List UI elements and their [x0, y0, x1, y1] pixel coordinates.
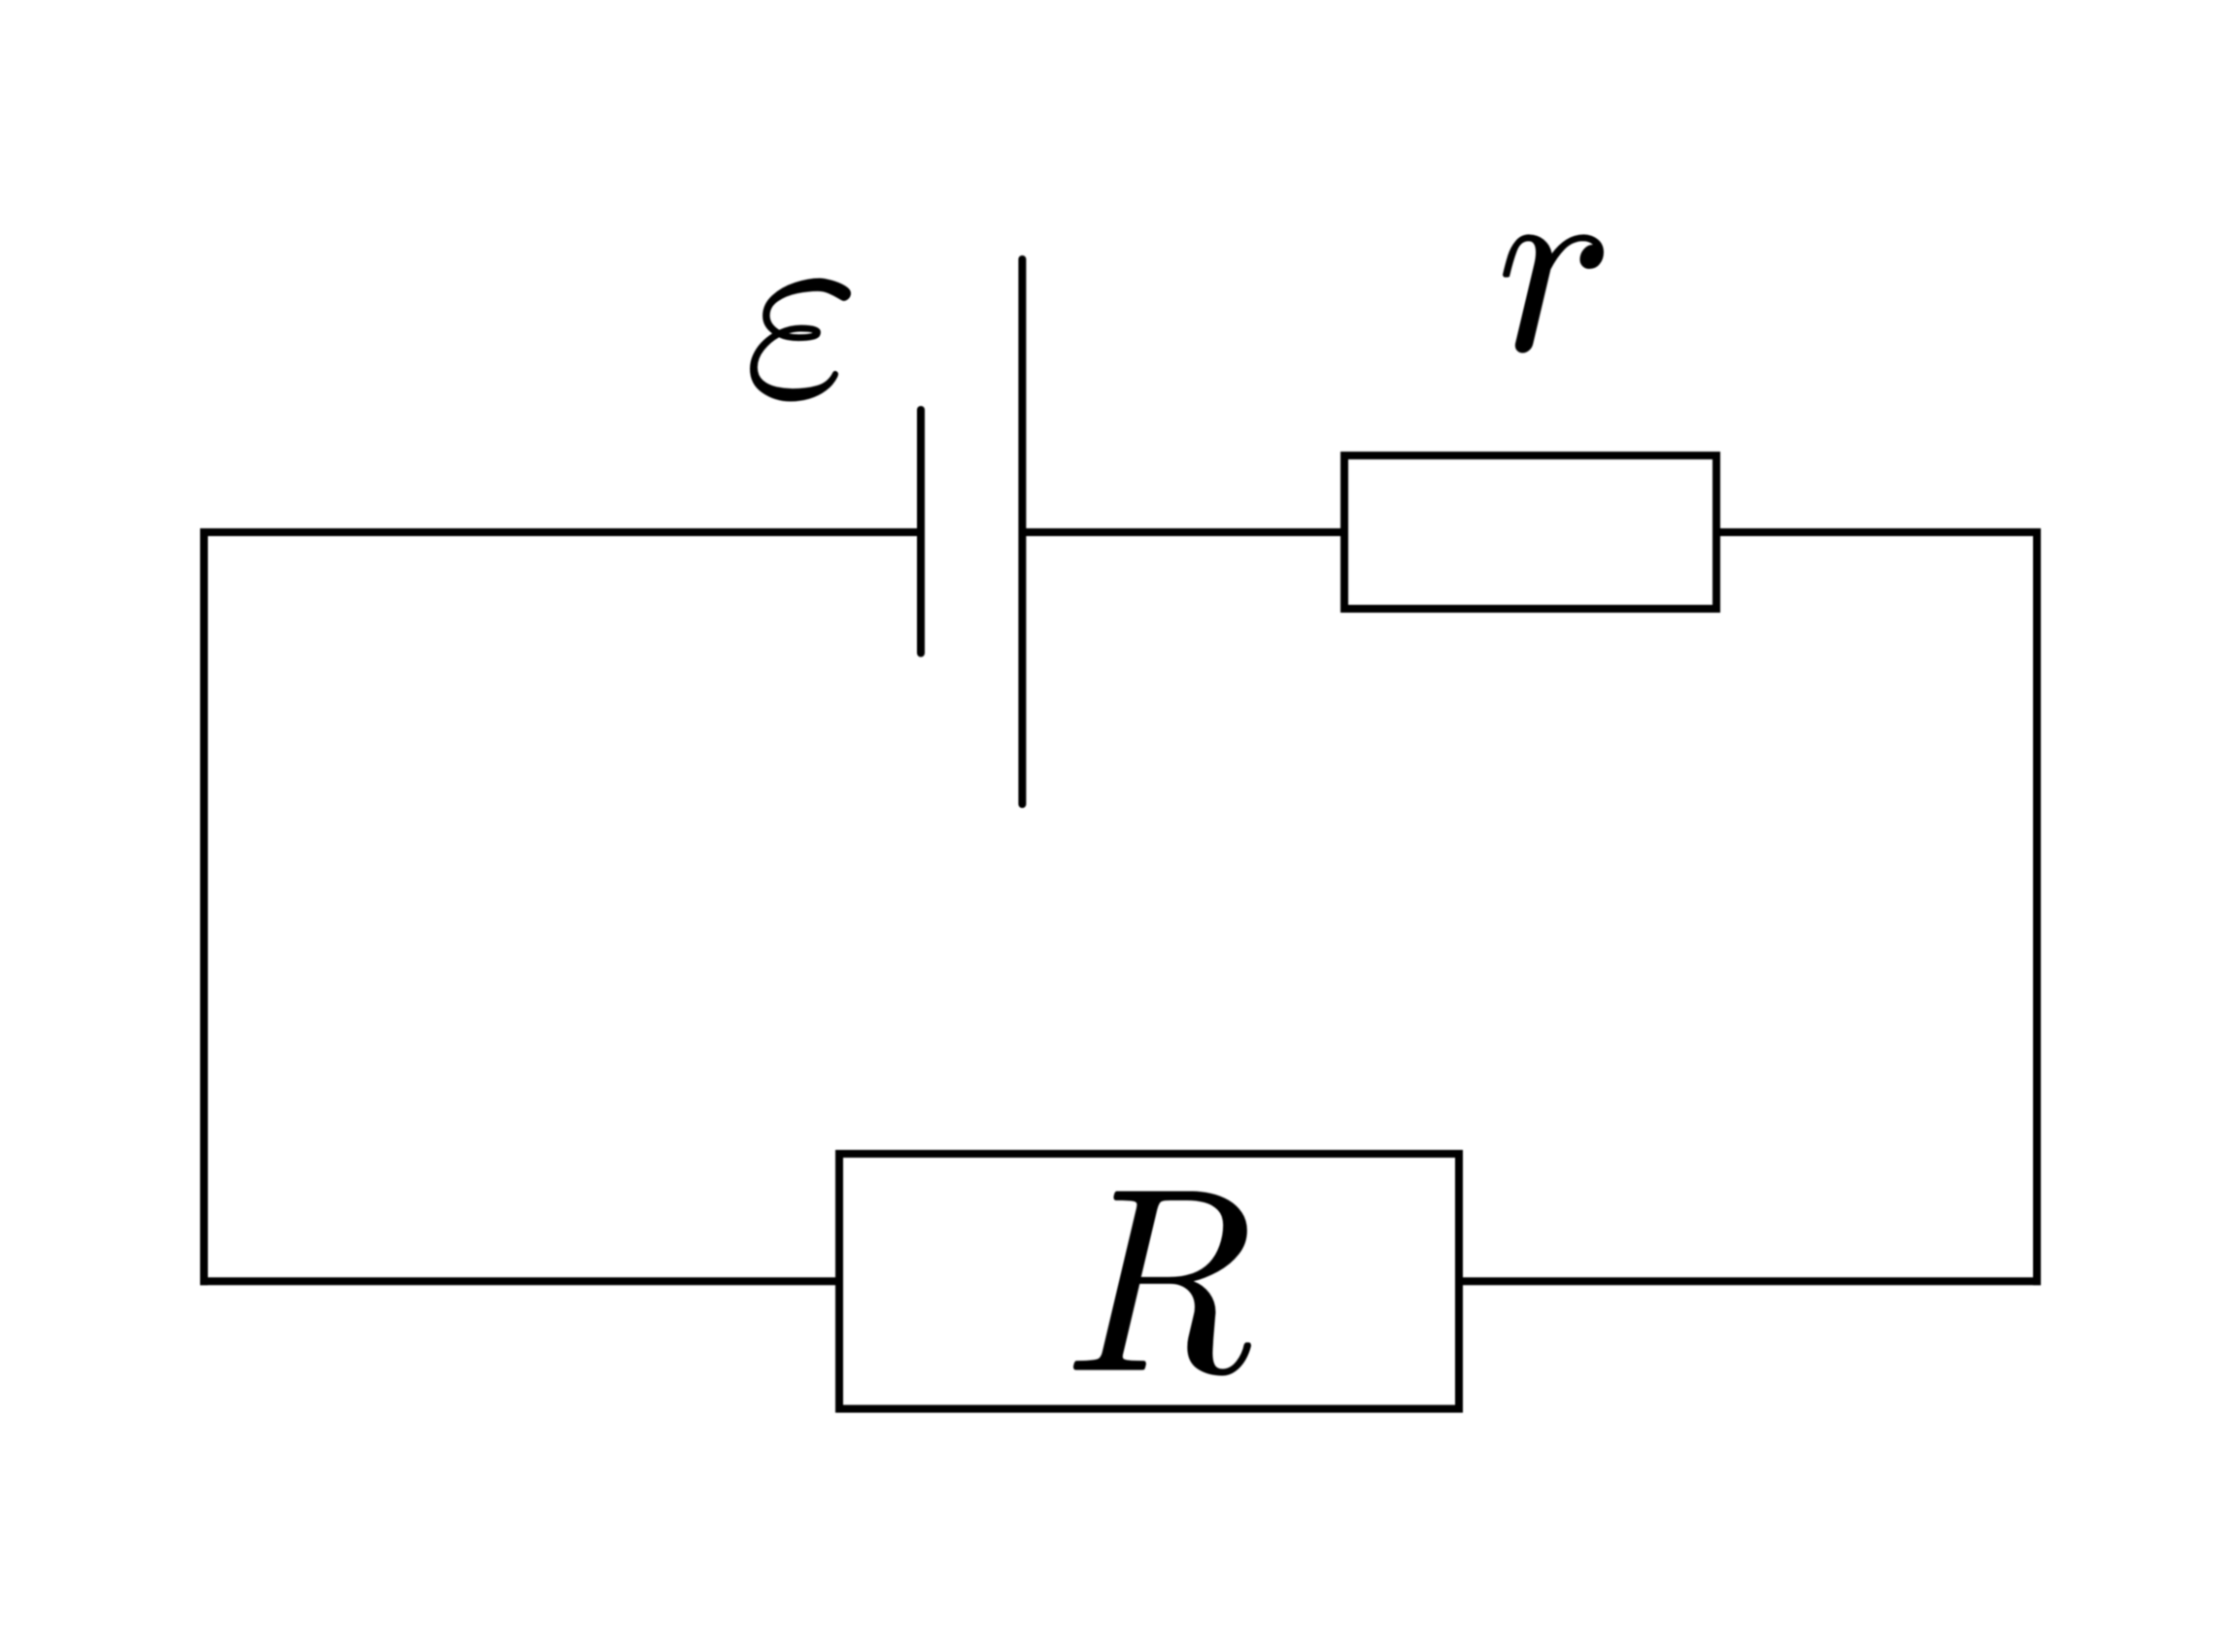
battery positive plate (long) — [1018, 259, 1026, 804]
wire resistor R to bottom-right corner — [1459, 1277, 2041, 1285]
wire resistor r to top-right corner — [1716, 528, 2041, 536]
label epsilon (EMF of battery) — [750, 278, 851, 401]
resistor r (internal resistance) body — [1344, 455, 1716, 609]
wire right vertical — [2033, 528, 2041, 1285]
resistor R (external load) body — [839, 1154, 1459, 1409]
wire bottom-left horizontal (left corner to resistor R) — [200, 1277, 839, 1285]
wire top-left horizontal (battery negative plate to top-left corner) — [200, 528, 921, 536]
label R (load resistance) — [1073, 1191, 1251, 1375]
wire left vertical — [200, 528, 208, 1285]
battery negative plate (short) — [917, 410, 925, 654]
label r (internal resistance) — [1503, 234, 1604, 353]
wire battery positive plate to resistor r — [1022, 528, 1344, 536]
